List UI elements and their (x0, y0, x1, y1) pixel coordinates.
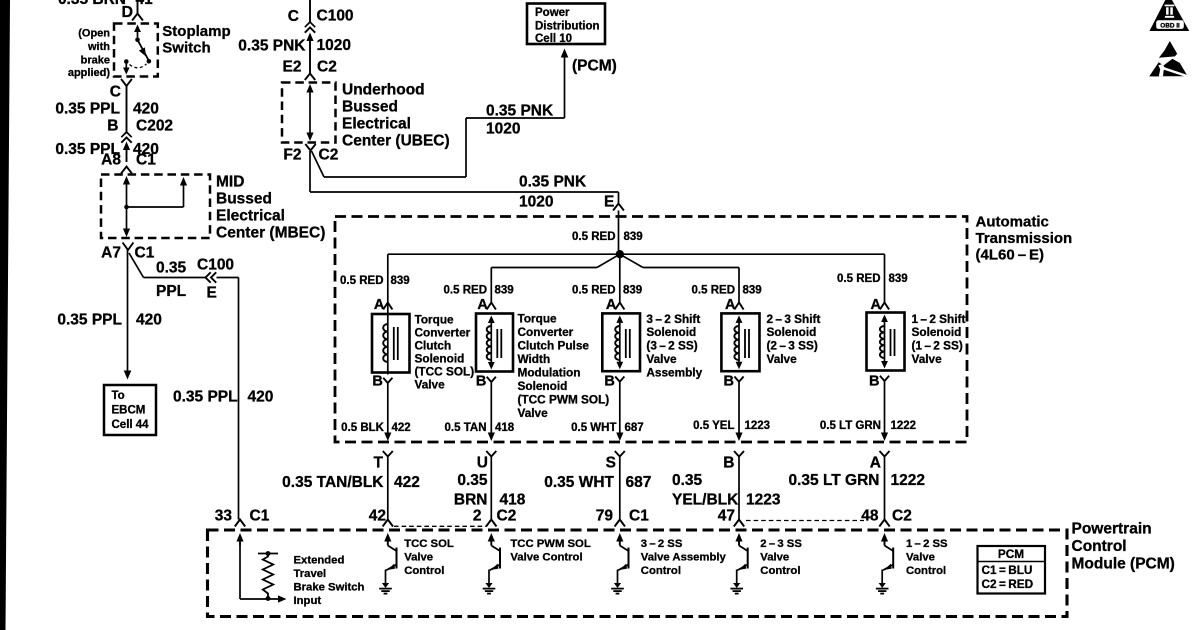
svg-text:42: 42 (369, 508, 386, 525)
svg-text:Torque: Torque (415, 313, 455, 327)
label 0.35 PPL 420 (lower) (55, 141, 159, 158)
label Automatic Transmission (4L60-E) (976, 214, 1073, 264)
svg-text:0.35 PNK: 0.35 PNK (486, 103, 554, 120)
svg-text:Width: Width (518, 352, 551, 366)
MBEC internal wires (123, 176, 187, 237)
ESD warning icon (1149, 41, 1187, 77)
svg-text:Control: Control (906, 565, 946, 577)
label Extended Travel Brake Switch Input (294, 555, 365, 608)
label 0.35 PNK 1020 (to cell 10) (486, 103, 554, 138)
svg-text:Bussed: Bussed (342, 99, 398, 116)
svg-text:Transmission: Transmission (976, 230, 1073, 247)
label 0.5 LT GRN 1222 (820, 420, 916, 432)
svg-text:C2: C2 (892, 508, 912, 525)
svg-text:420: 420 (248, 389, 274, 406)
label Torque Converter Clutch Solenoid (TCC SOL) Valve (415, 313, 475, 392)
label 3-2 Shift Solenoid (3-2 SS) Valve Assembly (646, 312, 702, 380)
svg-text:U: U (477, 455, 488, 472)
svg-text:BRN: BRN (454, 492, 488, 509)
svg-text:Automatic: Automatic (976, 214, 1049, 231)
label 0.35 WHT 687 (544, 474, 651, 491)
svg-text:Modulation: Modulation (518, 366, 581, 380)
connector fork at A7 (123, 243, 134, 251)
svg-text:A8: A8 (101, 152, 121, 169)
svg-text:A: A (606, 297, 617, 313)
svg-text:Electrical: Electrical (342, 116, 411, 133)
driver transistor Q3 (3-2 SS valve control) (611, 533, 628, 594)
label 0.5 WHT 687 (571, 422, 644, 434)
wire C100 to E2 with up arrow (306, 33, 313, 75)
svg-text:TCC PWM SOL: TCC PWM SOL (510, 538, 590, 550)
svg-text:A: A (871, 297, 882, 313)
svg-text:0.35 PNK: 0.35 PNK (519, 174, 587, 191)
svg-text:Solenoid: Solenoid (912, 325, 962, 339)
svg-text:PCM: PCM (998, 547, 1024, 561)
svg-text:with: with (87, 41, 110, 53)
svg-text:Solenoid: Solenoid (767, 325, 817, 339)
dotted connector line pins 47-48 (746, 520, 864, 522)
svg-text:C2: C2 (317, 59, 337, 76)
svg-text:Solenoid: Solenoid (646, 325, 696, 339)
solenoid TCC SOL valve (372, 303, 410, 375)
svg-text:Valve: Valve (415, 378, 446, 392)
solenoid pin A labels (374, 297, 882, 313)
label 0.35 PPL at C100 (156, 260, 187, 301)
svg-text:839: 839 (495, 285, 514, 297)
svg-text:2: 2 (473, 508, 482, 525)
label Powertrain Control Module (PCM) (1072, 521, 1175, 573)
OBD II icon (1150, 0, 1190, 31)
svg-text:839: 839 (391, 275, 410, 287)
svg-text:(PCM): (PCM) (572, 58, 617, 75)
svg-text:33: 33 (215, 508, 233, 525)
svg-text:839: 839 (743, 285, 762, 297)
svg-text:C100: C100 (197, 257, 234, 274)
svg-text:1020: 1020 (486, 121, 520, 138)
label TCC SOL valve control (404, 538, 454, 577)
svg-text:PPL: PPL (156, 283, 186, 300)
svg-text:T: T (374, 455, 384, 472)
PCM dashed box (208, 530, 1068, 617)
svg-text:Solenoid: Solenoid (415, 352, 465, 366)
svg-text:Valve: Valve (912, 352, 943, 366)
svg-text:Bussed: Bussed (216, 191, 272, 208)
svg-text:Center (MBEC): Center (MBEC) (216, 225, 325, 242)
svg-text:420: 420 (133, 101, 159, 118)
label 2-3 SS valve control (760, 538, 802, 577)
svg-text:1 – 2 SS: 1 – 2 SS (906, 538, 948, 550)
svg-text:Cell 10: Cell 10 (535, 33, 572, 45)
svg-text:Control: Control (760, 565, 800, 577)
svg-text:2 – 3 Shift: 2 – 3 Shift (767, 312, 821, 326)
connector C100 double chevron (left) (206, 272, 217, 282)
svg-text:Stoplamp: Stoplamp (162, 23, 230, 40)
svg-text:422: 422 (392, 422, 411, 434)
svg-text:0.5 RED: 0.5 RED (340, 275, 383, 287)
svg-text:B: B (372, 374, 382, 390)
stoplamp switch S1 contacts (123, 25, 151, 75)
svg-text:C1: C1 (250, 508, 270, 525)
svg-text:MID: MID (216, 174, 244, 191)
svg-text:Underhood: Underhood (342, 82, 425, 99)
svg-text:47: 47 (718, 508, 735, 525)
solenoid 2-3 shift solenoid valve (721, 313, 759, 371)
svg-text:79: 79 (596, 508, 614, 525)
svg-text:3 – 2 SS: 3 – 2 SS (641, 538, 683, 550)
splice node (616, 250, 624, 258)
svg-text:To: To (112, 390, 125, 402)
svg-text:C2 = RED: C2 = RED (982, 577, 1034, 591)
label 0.5 YEL 1223 (693, 420, 770, 432)
wire 0.35 BRN label (cut off at top) (58, 0, 153, 8)
svg-text:(4L60 – E): (4L60 – E) (976, 247, 1045, 264)
svg-text:Electrical: Electrical (216, 208, 285, 225)
svg-text:420: 420 (136, 312, 162, 329)
svg-text:Switch: Switch (162, 40, 210, 57)
label (PCM) (572, 58, 617, 75)
branch wire to TCC SOL (387, 254, 389, 302)
svg-text:(3 – 2 SS): (3 – 2 SS) (646, 339, 697, 353)
wire A7 down to EBCM (124, 250, 132, 380)
svg-text:1222: 1222 (891, 420, 917, 432)
svg-text:EBCM: EBCM (112, 405, 146, 417)
label 0.35 YEL/BLK 1223 (672, 472, 781, 509)
svg-text:B: B (723, 455, 734, 472)
svg-text:0.35 PPL: 0.35 PPL (173, 389, 238, 406)
svg-text:(TCC PWM SOL): (TCC PWM SOL) (518, 393, 610, 407)
label 0.35 PNK 1020 (top) (238, 37, 351, 55)
svg-text:Center (UBEC): Center (UBEC) (342, 133, 450, 150)
node B / connector C202 (107, 118, 173, 135)
node A7 / connector C1 (101, 245, 155, 262)
wire E into transmission (618, 211, 620, 251)
wire C202 to A8 with up arrow (123, 142, 130, 163)
svg-text:0.35 PPL: 0.35 PPL (55, 101, 120, 118)
node E2 / connector C2 (283, 59, 337, 76)
connector fork at E (613, 204, 624, 211)
svg-text:Valve: Valve (906, 552, 935, 564)
automatic transmission dashed box (335, 217, 967, 443)
scan edge bar (left margin) (0, 0, 10, 630)
PCM pin 33 input wire (236, 533, 286, 603)
svg-text:C1: C1 (135, 245, 155, 262)
node C (110, 84, 121, 101)
svg-text:1020: 1020 (519, 194, 553, 211)
node C / connector C100 (top) (288, 8, 354, 26)
svg-text:839: 839 (623, 285, 642, 297)
svg-text:0.5 RED: 0.5 RED (572, 285, 615, 297)
connector C100 double chevron (top) (305, 22, 315, 33)
svg-text:A: A (477, 297, 488, 313)
svg-text:0.35 LT GRN: 0.35 LT GRN (788, 472, 879, 489)
bus rail wire (388, 253, 885, 255)
svg-text:B: B (476, 374, 486, 390)
label Underhood Bussed Electrical Center (UBEC) (342, 82, 450, 150)
svg-text:(1 – 2 SS): (1 – 2 SS) (912, 339, 963, 353)
label 0.35 PPL 420 (to pin 33) (173, 389, 273, 406)
label PCM legend (982, 547, 1034, 591)
wires transmission to PCM with connector forks (383, 451, 890, 520)
svg-text:0.35 WHT: 0.35 WHT (544, 474, 614, 491)
svg-text:C: C (110, 84, 121, 101)
svg-text:0.5 RED: 0.5 RED (837, 273, 880, 285)
svg-text:D: D (121, 4, 133, 21)
wire F2 to transmission node E (310, 151, 619, 203)
svg-text:1222: 1222 (891, 472, 925, 489)
svg-text:Converter: Converter (518, 325, 574, 339)
label 3-2 SS valve control (641, 538, 727, 577)
wire F2 to PCM power distribution (312, 49, 569, 178)
svg-text:0.35 PNK: 0.35 PNK (238, 38, 306, 55)
wire A7 branch to C100 (129, 253, 205, 278)
svg-text:Valve: Valve (767, 352, 798, 366)
node D (121, 4, 133, 21)
svg-text:YEL/BLK: YEL/BLK (672, 492, 739, 509)
label 0.5 RED 839 (2-3 SS) (692, 285, 762, 297)
svg-text:TCC SOL: TCC SOL (404, 538, 454, 550)
label 0.5 TAN 418 (445, 422, 515, 434)
svg-text:Cell 44: Cell 44 (112, 419, 150, 431)
label Stoplamp Switch (162, 23, 230, 57)
connector fork at E2 (305, 74, 315, 81)
svg-text:Input: Input (294, 595, 322, 607)
svg-text:Valve Control: Valve Control (510, 552, 582, 564)
svg-text:Valve: Valve (404, 552, 433, 564)
svg-text:0.35 BRN: 0.35 BRN (58, 0, 126, 8)
label 0.35 LT GRN 1222 (788, 472, 925, 489)
svg-text:F2: F2 (283, 147, 301, 164)
svg-text:0.35 PPL: 0.35 PPL (57, 312, 122, 329)
svg-text:B: B (107, 118, 118, 135)
svg-text:C202: C202 (136, 118, 173, 135)
branch wires to TCC PWM and 2-3 SS (491, 254, 739, 302)
svg-text:0.5 TAN: 0.5 TAN (445, 422, 487, 434)
wire C to C202 (126, 86, 128, 132)
solenoid TCC PWM SOL valve (476, 314, 513, 372)
svg-text:Distribution: Distribution (535, 21, 600, 33)
svg-text:Brake Switch: Brake Switch (294, 582, 365, 594)
svg-text:Power: Power (535, 7, 570, 19)
svg-text:E: E (207, 285, 217, 302)
svg-text:B: B (869, 374, 879, 390)
wire into C100 (top) (309, 0, 311, 22)
resistor R (extended travel brake switch input) (258, 551, 278, 601)
svg-text:A: A (870, 455, 881, 472)
label TCC PWM SOL valve control (510, 538, 590, 564)
svg-text:687: 687 (626, 474, 652, 491)
svg-text:C1: C1 (629, 508, 649, 525)
driver transistor Q5 (1-2 SS valve control) (876, 533, 893, 594)
svg-text:Valve: Valve (518, 406, 549, 420)
svg-text:Travel: Travel (294, 568, 327, 580)
svg-text:brake: brake (81, 55, 110, 67)
solenoid pin A connector forks (383, 303, 889, 310)
svg-text:Valve: Valve (646, 352, 677, 366)
svg-text:422: 422 (394, 474, 420, 491)
svg-text:Valve Assembly: Valve Assembly (641, 552, 727, 564)
node A8 / connector C1 (101, 152, 156, 169)
label 0.5 RED 839 (TCC PWM) (444, 285, 514, 297)
solenoid 3-2 shift solenoid valve assembly (602, 313, 640, 371)
svg-text:B: B (724, 374, 734, 390)
svg-text:A: A (374, 297, 385, 313)
svg-text:Solenoid: Solenoid (518, 379, 568, 393)
label MID Bussed Electrical Center (MBEC) (216, 174, 325, 242)
label 0.35 PPL 420 (A7-EBCM) (57, 312, 162, 329)
branch wire to 3-2 SS (619, 254, 621, 302)
pin letters T U S B A (374, 455, 881, 472)
svg-text:Control: Control (641, 565, 681, 577)
svg-text:1020: 1020 (317, 37, 351, 54)
svg-text:Torque: Torque (518, 312, 558, 326)
svg-text:C2: C2 (319, 147, 339, 164)
driver transistor Q4 (2-3 SS valve control) (730, 533, 747, 594)
label 0.35 BRN 418 (454, 472, 526, 509)
svg-text:Clutch: Clutch (415, 339, 452, 353)
label 0.5 RED 839 (TCC SOL) (340, 275, 410, 287)
svg-text:Converter: Converter (415, 326, 471, 340)
svg-text:C100: C100 (317, 8, 354, 25)
svg-text:839: 839 (889, 273, 908, 285)
MBEC dashed box (101, 175, 210, 239)
svg-text:0.5 LT GRN: 0.5 LT GRN (820, 420, 881, 432)
connector fork at A8 (121, 167, 132, 174)
label (Open with brake applied) (68, 28, 111, 80)
label 1-2 SS valve control (906, 538, 948, 577)
label 0.35 PNK 1020 (to node E) (519, 174, 587, 211)
connector fork at F2 (305, 144, 315, 151)
UBEC dashed box (282, 83, 336, 143)
svg-text:418: 418 (500, 492, 526, 509)
svg-text:applied): applied) (68, 67, 111, 79)
solenoid 1-2 shift solenoid valve (867, 313, 905, 371)
wire from D to stoplamp switch (137, 0, 139, 14)
connector fork at C (121, 79, 132, 86)
svg-text:0.35: 0.35 (672, 472, 703, 489)
label 2-3 Shift Solenoid (2-3 SS) Valve (767, 312, 821, 366)
svg-text:1223: 1223 (746, 492, 781, 509)
svg-text:Valve: Valve (760, 552, 789, 564)
svg-text:A: A (725, 297, 736, 313)
solenoid pin B labels and forks (372, 374, 889, 390)
pin numbers row (215, 508, 912, 525)
svg-text:E2: E2 (283, 59, 302, 76)
svg-text:B: B (604, 374, 614, 390)
svg-text:48: 48 (861, 508, 879, 525)
solenoid output wires with down arrows (384, 381, 888, 441)
svg-text:839: 839 (624, 231, 643, 243)
svg-text:0.35: 0.35 (156, 260, 187, 277)
svg-text:3 – 2 Shift: 3 – 2 Shift (646, 312, 700, 326)
svg-text:OBD II: OBD II (1160, 22, 1180, 29)
branch wire to 1-2 SS (884, 254, 886, 302)
svg-text:Powertrain: Powertrain (1072, 521, 1152, 538)
connector fork at D (132, 14, 143, 21)
svg-text:Extended: Extended (294, 555, 345, 567)
svg-text:(Open: (Open (78, 28, 110, 40)
svg-text:Assembly: Assembly (646, 365, 702, 379)
connector C202 double chevron (121, 132, 131, 143)
driver transistor Q2 (TCC PWM SOL valve control) (483, 533, 500, 594)
To EBCM Cell 44 box (104, 385, 156, 435)
svg-text:E: E (604, 194, 614, 211)
node F2 / connector C2 (283, 147, 338, 164)
svg-text:2 – 3 SS: 2 – 3 SS (760, 538, 802, 550)
svg-text:0.35: 0.35 (457, 472, 488, 489)
svg-text:0.35 TAN/BLK: 0.35 TAN/BLK (282, 474, 384, 491)
label To EBCM Cell 44 (112, 390, 150, 431)
label 0.5 RED 839 (1-2 SS) (837, 273, 908, 285)
svg-text:0.5 RED: 0.5 RED (692, 285, 735, 297)
svg-text:0.5 RED: 0.5 RED (572, 231, 615, 243)
svg-text:1223: 1223 (745, 420, 771, 432)
svg-text:(2 – 3 SS): (2 – 3 SS) (767, 339, 818, 353)
svg-text:A7: A7 (101, 245, 121, 262)
svg-text:C1 = BLU: C1 = BLU (982, 563, 1033, 577)
label Power Distribution Cell 10 (535, 7, 600, 45)
stoplamp switch S1 dashed box (114, 24, 158, 77)
driver transistor Q1 (TCC SOL valve control) (379, 533, 396, 594)
dotted connector line pins 42-2 (394, 525, 486, 527)
PCM pin connector forks (235, 520, 890, 527)
label Torque Converter Clutch Pulse Width Modulation Solenoid (TCC PWM SOL) Valve (518, 312, 610, 421)
svg-text:687: 687 (625, 422, 644, 434)
label 0.5 RED 839 (feed) (572, 231, 643, 243)
svg-text:C: C (288, 8, 299, 25)
svg-text:S: S (606, 455, 616, 472)
wire C100 to PCM pin 33 (217, 278, 239, 520)
svg-text:0.5 BLK: 0.5 BLK (341, 422, 385, 434)
svg-text:0.5 WHT: 0.5 WHT (571, 422, 616, 434)
svg-text:(TCC SOL): (TCC SOL) (415, 365, 475, 379)
label 0.5 BLK 422 (341, 422, 411, 434)
svg-text:418: 418 (495, 422, 515, 434)
svg-text:0.5 YEL: 0.5 YEL (693, 420, 734, 432)
UBEC internal wire (306, 84, 313, 141)
svg-text:Control: Control (1072, 538, 1127, 555)
node E (transmission) (604, 194, 614, 211)
svg-text:Control: Control (404, 565, 444, 577)
svg-text:C1: C1 (136, 152, 156, 169)
label 1-2 Shift Solenoid (1-2 SS) Valve (912, 312, 966, 366)
label C100 / E (197, 257, 234, 302)
svg-text:0.5 RED: 0.5 RED (444, 285, 487, 297)
label 0.5 RED 839 (3-2 SS) (572, 285, 642, 297)
PCM legend box (978, 546, 1046, 594)
Power Distribution Cell 10 box (527, 4, 605, 45)
svg-text:Module (PCM): Module (PCM) (1072, 556, 1175, 573)
label 0.35 TAN/BLK 422 (282, 474, 420, 491)
svg-text:Clutch Pulse: Clutch Pulse (518, 339, 590, 353)
label 0.35 PPL 420 (upper) (55, 101, 159, 118)
svg-text:C2: C2 (497, 508, 517, 525)
svg-text:1 – 2 Shift: 1 – 2 Shift (912, 312, 966, 326)
